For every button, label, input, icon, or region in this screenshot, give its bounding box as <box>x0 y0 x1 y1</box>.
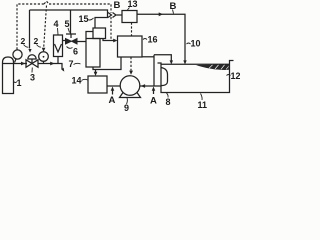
wire (valve 5 to column 7) <box>78 41 87 43</box>
pump 9 <box>120 76 141 98</box>
svg-text:14: 14 <box>72 76 82 86</box>
label 16 <box>143 35 158 45</box>
svg-text:3: 3 <box>30 73 35 83</box>
svg-text:6: 6 <box>73 47 78 57</box>
dashed control line 16 to pump 9 <box>129 57 133 75</box>
svg-text:B: B <box>114 0 121 11</box>
rotameter 4 <box>54 35 63 64</box>
liquid level line <box>161 63 230 65</box>
wire (pipe valve3 to rotameter) <box>38 63 58 65</box>
wire (branch to tank inlet with arrow) <box>154 55 173 65</box>
svg-text:12: 12 <box>231 71 241 81</box>
wire (pump discharge to box 14) <box>107 85 120 87</box>
arrow into valve 3 dome <box>28 49 31 53</box>
dashed branch to gauge 2b <box>42 6 47 53</box>
cylinder 1 <box>3 57 14 94</box>
wire (box16 bottom to box14 junction) <box>93 57 121 70</box>
arrow on outlet pipe <box>21 62 25 66</box>
label 15 <box>79 14 94 24</box>
suction dip pipe 8 (inside tank) <box>161 68 168 86</box>
wire (pipe corner down, vent) <box>58 64 62 70</box>
node A (right) <box>150 87 157 107</box>
svg-text:A: A <box>150 96 157 107</box>
gauge 2b (circle) <box>39 52 49 64</box>
svg-text:4: 4 <box>54 19 59 29</box>
chevron arrows to box 13 <box>108 13 122 18</box>
tank 11 <box>158 61 234 93</box>
wire (branch down to suction line) <box>153 55 155 86</box>
wire (rotameter outlet) <box>63 40 66 42</box>
node A (left) <box>109 87 116 107</box>
arrow on pipe before rotameter <box>50 62 54 66</box>
control box 16 <box>118 36 143 57</box>
wire (top supply pipe down to valve 3) <box>29 10 31 49</box>
gauge 2a (circle on cylinder) <box>13 50 22 59</box>
label 11 <box>198 94 208 111</box>
wire (cylinder outlet pipe) <box>14 63 28 65</box>
svg-text:10: 10 <box>191 39 201 49</box>
wire (drop into box 14 with arrow) <box>94 70 98 77</box>
pipe 15 <box>95 14 108 28</box>
relief valve 3 (dome + bowtie) <box>26 55 38 68</box>
svg-text:2: 2 <box>21 36 26 46</box>
svg-text:7: 7 <box>69 59 74 69</box>
dashed enclosure line <box>17 1 111 49</box>
controller box 13 <box>122 11 137 23</box>
wire (head box to box 16 with arrow) <box>103 39 118 43</box>
label 2 (right) <box>34 36 42 47</box>
wire (main top pipe) <box>30 10 108 14</box>
label 12 <box>227 71 241 81</box>
svg-text:2: 2 <box>34 36 39 46</box>
label 14 <box>72 76 88 86</box>
svg-text:16: 16 <box>148 35 158 45</box>
label 10 <box>187 39 201 49</box>
wire (line from top pipe to valve 5 actuator) <box>70 10 72 34</box>
svg-text:15: 15 <box>79 14 89 24</box>
box 14 <box>88 76 107 93</box>
svg-text:8: 8 <box>166 97 171 107</box>
label 8 <box>166 93 171 107</box>
separator head box <box>93 28 106 39</box>
label 9 <box>124 98 129 113</box>
label B (right) <box>170 1 177 14</box>
wire (box16 to branch junction) <box>142 56 154 58</box>
column 7 <box>86 32 100 68</box>
label 5 <box>65 19 70 33</box>
label 2 (left) <box>21 36 29 47</box>
label 1 <box>14 78 22 88</box>
arrow (vent, down-right) <box>61 68 64 72</box>
svg-text:A: A <box>109 95 116 106</box>
hatched wedge 12 <box>196 64 229 70</box>
label 6 <box>67 47 79 57</box>
svg-text:1: 1 <box>17 78 22 88</box>
svg-text:11: 11 <box>198 100 208 110</box>
svg-text:9: 9 <box>124 103 129 111</box>
control valve 5 (T-bar + bowtie) <box>65 34 78 45</box>
wire (suction line tank to pump, arrow left) <box>140 84 161 88</box>
svg-text:5: 5 <box>65 19 70 29</box>
label 7 <box>69 59 81 69</box>
wire (line B from box 13 to tank) <box>137 12 187 64</box>
label 3 <box>30 68 35 83</box>
dashed line B down <box>110 17 112 40</box>
dashed line 13 to 16 <box>131 23 133 36</box>
label 13 <box>127 0 138 11</box>
wire (gauge stem) <box>15 59 17 63</box>
label 4 <box>54 19 59 35</box>
